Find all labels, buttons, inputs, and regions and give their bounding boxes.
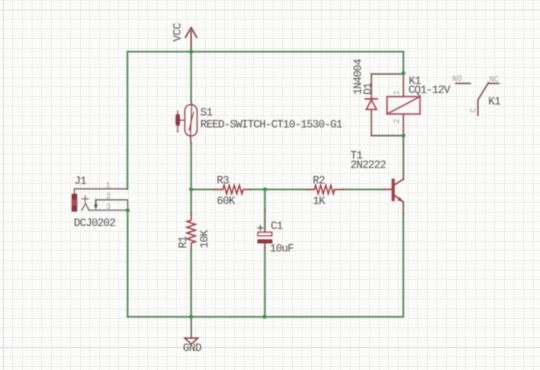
J1 pin 3 line <box>89 209 128 211</box>
junction VCC tap <box>189 50 193 54</box>
S1 contact blade <box>189 112 194 130</box>
svg-text:1K: 1K <box>313 196 326 208</box>
svg-text:2: 2 <box>393 119 402 124</box>
junction GND tap <box>189 315 193 319</box>
wire left vertical lower <box>127 210 129 317</box>
svg-text:2N2222: 2N2222 <box>350 160 386 172</box>
svg-text:10uF: 10uF <box>270 244 294 256</box>
wire C1 upper <box>264 189 266 210</box>
svg-text:NC: NC <box>489 75 499 84</box>
diode D1 <box>370 74 372 136</box>
junction relay-diode bottom <box>401 134 405 138</box>
vcc symbol <box>186 28 197 52</box>
svg-text:J1: J1 <box>74 176 87 188</box>
wire reed to mid rail <box>190 143 192 189</box>
wire C1 lower <box>264 248 266 317</box>
svg-text:C1: C1 <box>271 221 284 233</box>
J1 spring caret <box>82 203 89 210</box>
J1 pin 2 line <box>96 200 128 210</box>
wire center vertical upper (VCC to reed) <box>190 52 192 102</box>
S1 pins through <box>191 102 192 144</box>
svg-text:R2: R2 <box>313 176 325 188</box>
svg-text:VCC: VCC <box>173 22 185 41</box>
S1 magnet capsule <box>176 114 180 126</box>
svg-text:1: 1 <box>393 90 402 95</box>
svg-text:S1: S1 <box>200 108 213 120</box>
C1 plus sign <box>258 225 263 230</box>
connector J1 barrel <box>72 194 78 212</box>
svg-text:C: C <box>470 108 479 113</box>
svg-text:1: 1 <box>106 182 111 191</box>
wire R1 lower to bottom rail <box>190 189 192 316</box>
wire left vertical upper <box>126 52 128 189</box>
gnd symbol <box>185 317 198 344</box>
J1 switch arrow <box>95 200 97 205</box>
junction C1 bottom <box>263 315 267 319</box>
darker grid line bottom <box>0 347 540 349</box>
wire right vertical top (rail to relay) <box>402 52 404 74</box>
wire emitter to bottom rail <box>402 214 404 317</box>
svg-text:60K: 60K <box>217 196 236 208</box>
svg-text:R3: R3 <box>217 176 229 188</box>
svg-text:CQ1-12V: CQ1-12V <box>408 85 450 97</box>
wire top rail <box>127 51 403 53</box>
wire bottom rail <box>127 316 403 318</box>
darker grid line top <box>0 9 540 11</box>
svg-text:GND: GND <box>183 343 202 355</box>
junction J1 pins 2-3 <box>126 208 130 212</box>
svg-text:R1: R1 <box>178 235 190 248</box>
wire emitter stub <box>402 202 404 215</box>
svg-text:D1: D1 <box>363 82 375 95</box>
wire relay to collector <box>402 136 404 180</box>
svg-text:3: 3 <box>106 203 111 212</box>
svg-text:NO: NO <box>452 75 462 84</box>
reed switch S1 body <box>185 105 197 136</box>
wire mid rail seg2 <box>251 188 308 190</box>
capacitor C1 <box>258 232 272 235</box>
darker grid line left <box>2 0 4 370</box>
J1 pin 1 line <box>74 189 127 194</box>
wire diode loop bottom <box>371 135 403 137</box>
transistor T1 <box>383 188 391 190</box>
svg-text:REED-SWITCH-CT10-1530-G1: REED-SWITCH-CT10-1530-G1 <box>200 119 343 131</box>
relay K1 coil box <box>387 97 420 114</box>
wire C1 upper dark segment <box>264 210 266 232</box>
wire mid rail seg1 <box>191 188 214 190</box>
junction mid rail left <box>189 187 193 191</box>
junction relay-diode top <box>401 71 405 75</box>
resistor R3 <box>214 185 251 194</box>
wire mid rail seg3 <box>343 188 383 190</box>
relay K1 coil pins <box>402 74 404 136</box>
J1 tip plus <box>82 196 88 202</box>
wire diode loop top <box>371 73 403 75</box>
relay contact K1 <box>456 82 470 84</box>
svg-text:DCJ0202: DCJ0202 <box>74 218 115 230</box>
junction C1 top <box>263 187 267 191</box>
svg-text:2: 2 <box>106 192 111 201</box>
svg-text:K1: K1 <box>488 97 501 109</box>
resistor R1 <box>187 214 195 250</box>
svg-text:10K: 10K <box>199 229 211 248</box>
resistor R2 <box>307 185 343 194</box>
